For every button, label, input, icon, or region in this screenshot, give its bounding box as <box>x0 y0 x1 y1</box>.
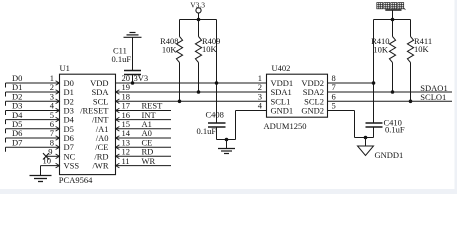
wire R411 to SCLO1 <box>410 63 412 102</box>
wire ground run (right) <box>355 137 374 139</box>
U1 pin 9 NC stub wire <box>46 155 60 157</box>
wire GND2 from U402 pin5 <box>328 110 355 112</box>
ground symbol GNDD1 (triangle) <box>358 146 374 156</box>
capacitor C410 plates <box>366 122 383 124</box>
resistor R409 <box>198 20 200 37</box>
wire GND1 down <box>235 111 237 140</box>
wire rail drop to VDD2 row and C410 <box>373 20 375 124</box>
power symbol isolated 3.3V (bar) <box>385 9 401 11</box>
svg-text:5: 5 <box>332 101 336 111</box>
bus entry tick D3 <box>5 111 7 116</box>
power symbol V3.3 circle <box>196 8 201 13</box>
wire net CE stub <box>116 146 172 148</box>
U1 pin 9 arrowhead <box>56 154 60 159</box>
svg-text:/WR: /WR <box>92 161 108 171</box>
bus entry tick D1 <box>5 92 7 97</box>
wire net D2 to U1 pin 3 <box>6 100 60 102</box>
U1 pin 1 arrowhead <box>56 81 60 86</box>
U1 pin 4 arrowhead <box>56 108 60 113</box>
svg-text:V3.3: V3.3 <box>190 0 205 9</box>
svg-text:ADUM1250: ADUM1250 <box>264 121 307 131</box>
wire GND1 from U402 pin4 <box>236 110 267 112</box>
svg-text:U1: U1 <box>60 63 70 73</box>
svg-text:11: 11 <box>122 156 130 166</box>
wire net D7 to U1 pin 8 <box>6 146 60 148</box>
U1 pin 14 arrowhead <box>116 136 120 141</box>
junction R410/SDAO1 <box>391 90 395 94</box>
wire net D3 to U1 pin 4 <box>6 110 60 112</box>
U1 pin 13 arrowhead <box>116 145 120 150</box>
power net label (CJK isolated 3.3V) <box>377 3 406 10</box>
wire net D4 to U1 pin 5 <box>6 119 60 121</box>
wire SCL net U1 pin18 to U402 pin3 <box>116 100 267 102</box>
no-connect X on NC pin <box>43 153 49 159</box>
svg-text:VSS: VSS <box>64 161 80 171</box>
capacitor C408 plates <box>208 122 226 124</box>
svg-text:WR: WR <box>142 156 156 166</box>
bus entry tick D6 <box>5 138 7 143</box>
resistor R408 <box>179 20 181 37</box>
svg-text:0.1uF: 0.1uF <box>197 126 217 136</box>
wire R408 to SCL <box>179 63 181 102</box>
U1 pin 7 arrowhead <box>56 136 60 141</box>
U1 pin 6 arrowhead <box>56 127 60 132</box>
wire C408 ground run <box>217 139 236 141</box>
svg-text:C408: C408 <box>206 110 224 120</box>
wire C408 bottom lead <box>216 127 218 140</box>
junction drop/VDD2 <box>372 81 376 85</box>
wire R409 to SDA <box>198 63 200 93</box>
svg-text:4: 4 <box>258 101 263 111</box>
wire net D0 to U1 pin 1 <box>6 82 60 84</box>
wire C410 bottom lead <box>373 127 375 138</box>
wire VSS down to ground <box>40 166 42 176</box>
junction GNDD1 stem <box>364 136 368 140</box>
svg-text:GNDD1: GNDD1 <box>375 150 404 160</box>
ground symbol at VSS <box>30 175 52 177</box>
IC U402 ADUM1250 box <box>267 74 328 117</box>
wire SDA net U1 pin19 to U402 pin2 <box>116 91 267 93</box>
wire net WR stub <box>116 165 172 167</box>
wire SCLO1 net <box>328 100 453 102</box>
resistor R411 <box>410 20 412 37</box>
wire SDAO1 net <box>328 91 453 93</box>
wire GNDD1 stem <box>365 138 367 147</box>
bus entry tick D4 <box>5 120 7 125</box>
U1 pin 16 arrowhead <box>116 117 120 122</box>
wire 3V3 net U1 pin20 to U402 pin1 <box>116 82 267 84</box>
junction drop/3V3 <box>215 81 219 85</box>
svg-text:0.1uF: 0.1uF <box>385 125 405 135</box>
wire net D6 to U1 pin 7 <box>6 137 60 139</box>
wire net D5 to U1 pin 6 <box>6 128 60 130</box>
capacitor C11 plates <box>124 70 141 72</box>
IC U1 PCA9564 box <box>60 74 116 174</box>
junction stem/rail <box>197 18 201 22</box>
wire ground stem <box>226 140 228 149</box>
U1 pin 10 arrowhead <box>56 163 60 168</box>
wire power stem <box>198 13 200 20</box>
wire power rail <box>180 19 217 21</box>
wire VSS pin 10 <box>41 165 60 167</box>
wire net INT stub <box>116 119 172 121</box>
wire power rail (right) <box>374 19 411 21</box>
wire net REST stub <box>116 110 172 112</box>
U1 pin 5 arrowhead <box>56 117 60 122</box>
ground symbol below C408 <box>218 148 235 150</box>
svg-text:0.1uF: 0.1uF <box>112 54 132 64</box>
bus entry tick D5 <box>5 129 7 134</box>
svg-text:D7: D7 <box>12 137 22 147</box>
wire VDD2 row <box>328 82 374 84</box>
U1 pin 11 arrowhead <box>116 163 120 168</box>
junction R411/SCLO1 <box>409 100 413 104</box>
junction stem/rail (right) <box>391 18 395 22</box>
wire rail drop to 3V3 row and C408 <box>216 20 218 124</box>
U1 pin 3 arrowhead <box>56 99 60 104</box>
svg-text:GND1: GND1 <box>271 106 294 116</box>
U1 pin 2 arrowhead <box>56 90 60 95</box>
bus entry tick D7 <box>5 147 7 152</box>
junction C11 / 3V3 <box>131 81 135 85</box>
U1 pin 8 arrowhead <box>56 145 60 150</box>
wire power stem (right) <box>392 10 394 20</box>
svg-text:10K: 10K <box>373 44 389 54</box>
junction R409/SDA <box>197 90 201 94</box>
junction ground stem <box>225 138 229 142</box>
wire net RD stub <box>116 155 172 157</box>
svg-text:PCA9564: PCA9564 <box>59 175 93 185</box>
U1 pin 19 arrowhead <box>116 90 120 95</box>
wire C11 bottom lead <box>132 75 134 84</box>
svg-text:SCLO1: SCLO1 <box>420 92 446 102</box>
svg-text:10: 10 <box>43 155 52 165</box>
wire net A0 stub <box>116 137 172 139</box>
ground symbol above C11 (flipped) <box>130 32 136 34</box>
U1 pin 15 arrowhead <box>116 127 120 132</box>
svg-text:GND2: GND2 <box>301 106 324 116</box>
bus entry tick D0 <box>5 83 7 88</box>
U1 pin 18 arrowhead <box>116 99 120 104</box>
decorative page edge bands <box>0 189 457 194</box>
U1 pin 12 arrowhead <box>116 154 120 159</box>
resistor R410 <box>392 20 394 37</box>
wire GND2 down <box>354 111 356 138</box>
wire net A1 stub <box>116 128 172 130</box>
svg-text:10K: 10K <box>162 44 178 54</box>
svg-text:U402: U402 <box>272 63 291 73</box>
bus entry tick D2 <box>5 101 7 106</box>
wire R410 to SDAO1 <box>392 63 394 93</box>
wire net D1 to U1 pin 2 <box>6 91 60 93</box>
svg-text:10K: 10K <box>202 44 218 54</box>
wire C11 top lead <box>132 37 134 70</box>
svg-text:10K: 10K <box>414 44 430 54</box>
junction R408/SCL <box>178 100 182 104</box>
U1 pin 17 arrowhead <box>116 108 120 113</box>
